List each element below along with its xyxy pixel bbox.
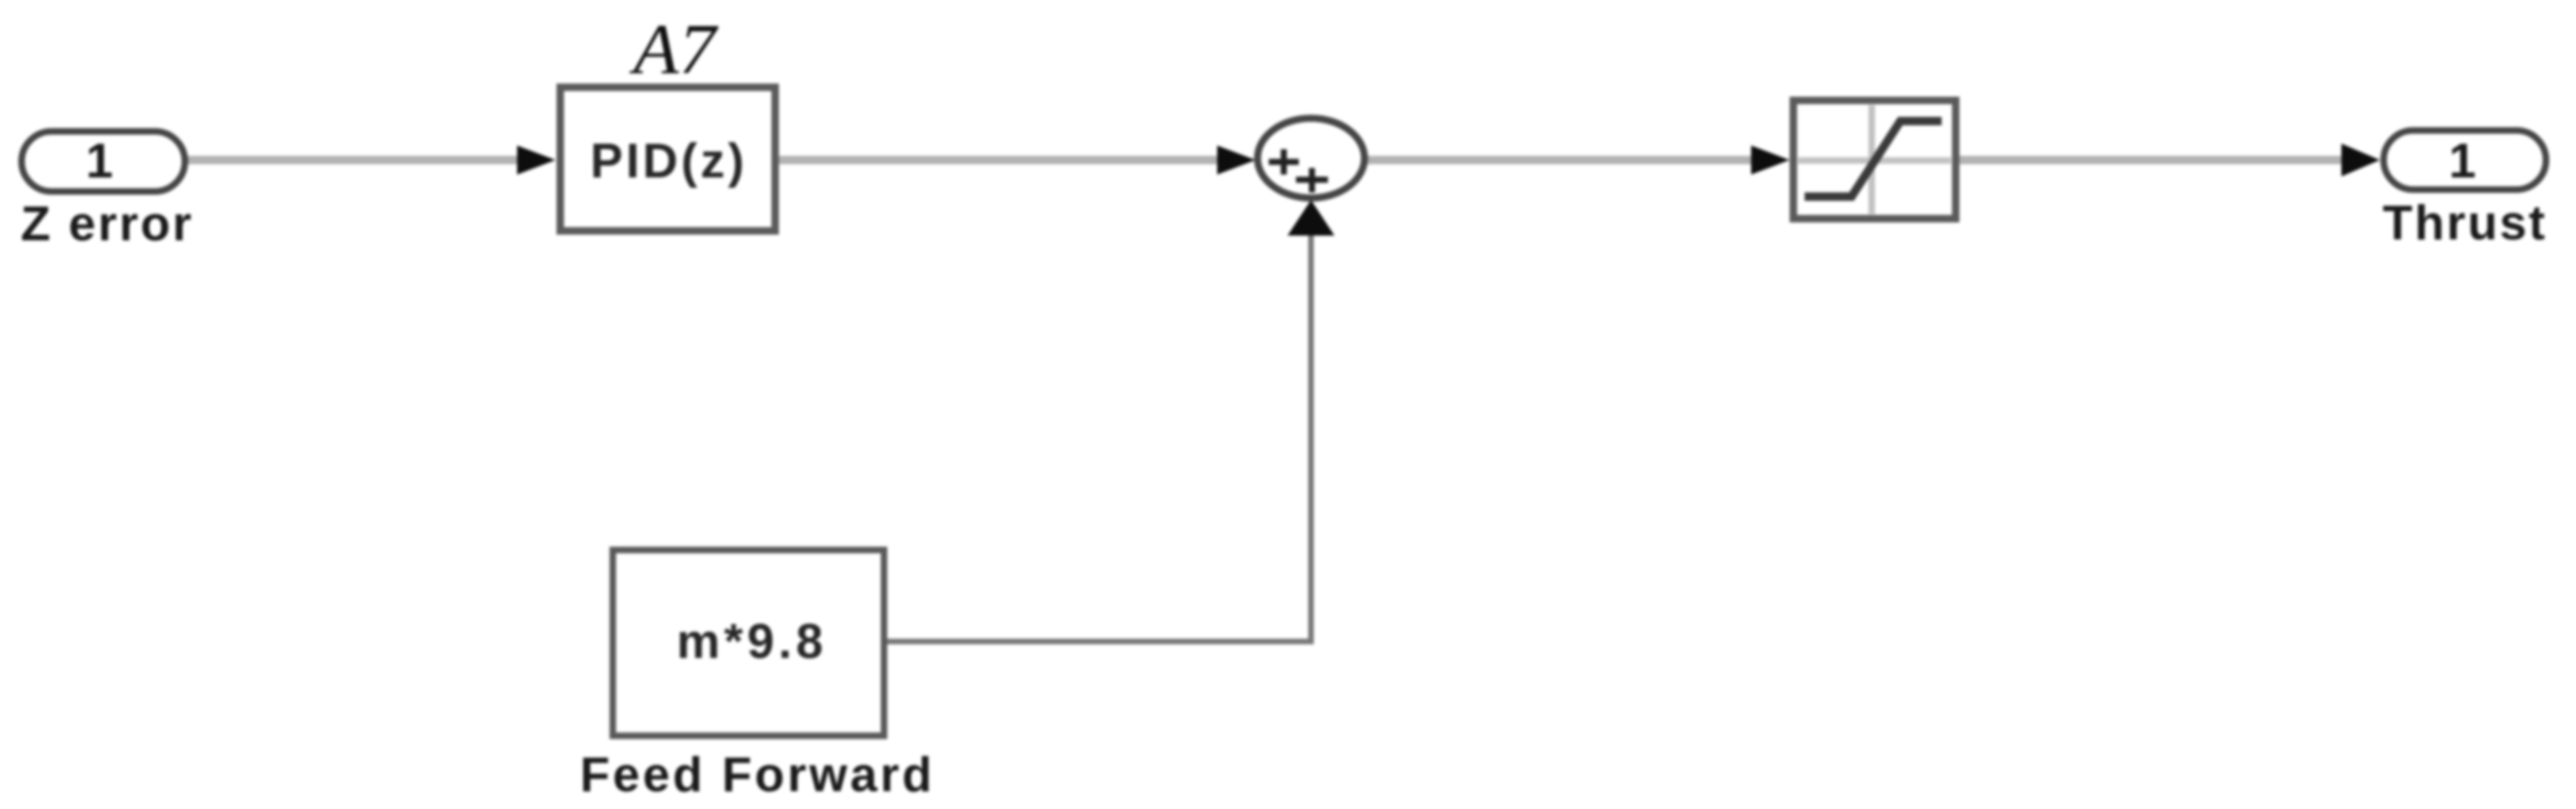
saturation block xyxy=(1793,100,1956,219)
svg-text:1: 1 xyxy=(2449,134,2477,189)
wire W2: PID to sum xyxy=(779,156,1225,164)
Feed Forward block (m*9.8) xyxy=(613,550,884,736)
inport 1 (Z error) xyxy=(22,131,185,191)
outport 1 (Thrust) xyxy=(2384,130,2546,190)
label "Thrust" xyxy=(2383,196,2545,251)
svg-text:Feed Forward: Feed Forward xyxy=(580,748,932,802)
label "Feed Forward" xyxy=(580,748,932,802)
label "A7" xyxy=(629,10,719,89)
arrowhead into sum (bottom) xyxy=(1288,200,1334,236)
arrowhead into PID xyxy=(517,145,556,175)
arrowhead into saturation xyxy=(1751,145,1790,175)
svg-text:PID(z): PID(z) xyxy=(590,134,744,189)
svg-text:Z error: Z error xyxy=(21,197,191,252)
saturation curve xyxy=(1805,121,1942,197)
plus sign (left input) xyxy=(1269,149,1299,175)
wire W4: saturation to outport xyxy=(1959,156,2351,164)
arrowhead into sum (left) xyxy=(1217,145,1256,175)
plus sign (bottom input) xyxy=(1296,168,1328,192)
PID(z) block U1 xyxy=(560,87,775,231)
saturation axes xyxy=(1868,105,1875,214)
svg-text:1: 1 xyxy=(86,134,114,189)
wire W1: inport to PID xyxy=(186,156,526,164)
svg-text:m*9.8: m*9.8 xyxy=(677,615,823,669)
wire W3: sum to saturation xyxy=(1366,156,1760,164)
label "Z error" xyxy=(21,197,191,252)
sum junction xyxy=(1258,118,1364,198)
svg-text:A7: A7 xyxy=(629,10,719,89)
wire W5: Feed Forward to sum (L-shaped) xyxy=(887,231,1314,645)
arrowhead into outport xyxy=(2341,144,2380,176)
svg-text:Thrust: Thrust xyxy=(2383,196,2545,251)
